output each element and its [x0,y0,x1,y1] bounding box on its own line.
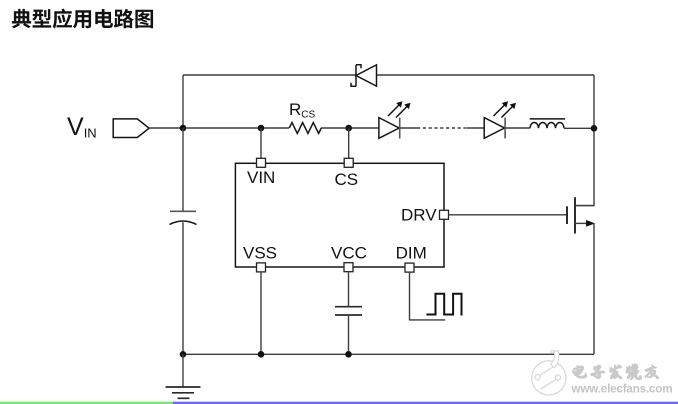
ground symbol [166,387,201,398]
junction dot CS pin tap [345,125,352,132]
watermark text 电子发烧友 [573,364,659,380]
junction dot ground tee [180,351,187,358]
pin pad DRV [440,210,449,219]
watermark logo (elecfans) [532,350,566,395]
transistor Q1 (NMOS) [567,197,595,233]
wire mosfet source down [593,223,595,354]
LED D3 [484,102,515,139]
junction dot VIN pin tap [258,125,265,132]
capacitor C2 (VCC bypass) [335,307,362,315]
junction dot right rail [591,125,598,132]
wire VIN tag to rail [149,127,183,129]
wire DRV to gate [449,214,568,216]
pin pad DIM [405,263,414,272]
wire bottom rail [183,353,594,355]
wire VIN pin drop [260,128,262,159]
wire C2 to rail [348,315,350,354]
VIN input tag [113,119,149,138]
pin pad CS [344,158,353,167]
svg-text:DIM: DIM [396,244,427,263]
IC U1 body [235,163,444,267]
resistor RCS zigzag [289,123,321,134]
title 典型应用电路图 [12,9,153,29]
junction dot VCC at rail [345,351,352,358]
wire resistor to LED1 [321,127,379,129]
junction dot VSS at rail [258,351,265,358]
svg-text:www.elecfans.com: www.elecfans.com [571,383,673,396]
wire inductor to right rail [564,127,594,129]
svg-text:CS: CS [335,170,359,189]
dashed wire (LED string continues) [417,127,467,129]
wire main rail to resistor [183,127,289,129]
svg-text:VSS: VSS [243,244,277,263]
wire right rail upper (junction up to top rail) [593,75,595,128]
svg-text:DRV: DRV [401,205,437,224]
svg-text:VIN: VIN [247,168,275,187]
diode D1 (schottky, pointing left) [351,65,377,86]
wire DIM drop [410,272,446,320]
inductor L1 [530,119,565,128]
wire right rail to mosfet drain [575,128,594,205]
svg-text:VCC: VCC [331,244,367,263]
wire LED2 to inductor [505,127,530,129]
wire dashes to LED2 [467,127,484,129]
wire LED1 to dashes [400,127,417,129]
junction dot main rail at VIN trunk [180,125,187,132]
wire left vertical VIN trunk (top) [182,75,184,128]
wire ground stem [182,354,184,387]
wire CS pin drop [348,128,350,159]
pin pad VIN [257,158,266,167]
LED D2 [379,102,410,139]
bottom bar green segment [0,402,173,404]
pin pad VCC [344,263,353,272]
wire top rail left of D1 [183,74,356,76]
PWM dimming waveform [426,294,461,316]
pin pad VSS [257,263,266,272]
wire VSS drop to rail [260,272,262,354]
wire top rail right of D1 [377,74,595,76]
wire VCC drop to C2 [348,272,350,306]
capacitor C1 (input, polarized) [170,128,197,354]
bottom bar blue segment [173,402,678,404]
